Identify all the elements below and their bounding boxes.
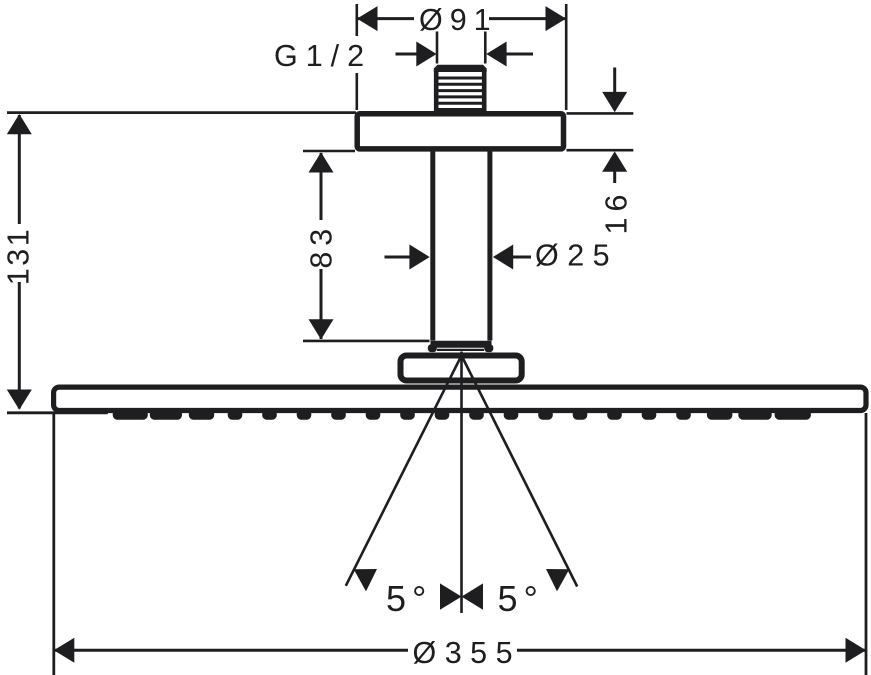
spray left line: [346, 356, 462, 586]
dim O25 left arrow: [385, 245, 430, 270]
svg-text:Ø25: Ø25: [535, 239, 618, 273]
dim G1/2 left arrow: [396, 42, 437, 67]
thread hatch lines: [437, 78, 483, 110]
dim O355 line: [54, 649, 866, 652]
dim 131 arrows: [7, 114, 32, 410]
seal gap line: [437, 349, 484, 351]
dim 16 extension lines: [567, 113, 634, 150]
svg-text:G1/2: G1/2: [274, 39, 372, 73]
ceiling flange plate: [357, 114, 563, 149]
svg-text:131: 131: [1, 227, 35, 285]
svg-text:83: 83: [305, 223, 339, 269]
label G 1/2: [271, 36, 372, 73]
svg-text:5°: 5°: [386, 578, 432, 619]
dim O355 arrows: [54, 638, 866, 663]
pipe bottom seal: [428, 341, 494, 352]
angle bowtie arrows: [440, 583, 483, 609]
lower escutcheon: [401, 356, 522, 381]
connection pipe: [433, 149, 490, 341]
dim 16 lower arrow: [602, 151, 627, 183]
spray nozzle dashes: [113, 409, 811, 419]
ceiling line: [7, 111, 356, 114]
svg-text:Ø355: Ø355: [413, 636, 522, 670]
dim G1/2 right arrow: [486, 42, 533, 67]
dim 83 text: [305, 220, 339, 269]
dim O25 right arrow: [493, 245, 531, 270]
spray left arrowhead: [354, 569, 377, 591]
dim 131 line: [18, 115, 21, 409]
dim O91 line: [357, 17, 566, 20]
shower head plate: [54, 387, 866, 410]
threaded nipple G1/2: [434, 65, 487, 112]
dim 83 extension lines: [303, 151, 430, 341]
dim 16 upper arrow: [602, 68, 627, 113]
spray right arrowhead: [546, 569, 569, 591]
spray right line: [462, 356, 578, 587]
dim O91 extension lines: [357, 4, 566, 110]
svg-text:5°: 5°: [498, 578, 544, 619]
dim 131 bottom extension: [7, 411, 108, 414]
dim 83 line: [320, 153, 323, 339]
spray center line: [460, 352, 463, 614]
dim 131 text: [1, 224, 35, 285]
dim O91 arrows: [357, 6, 566, 31]
svg-text:16: 16: [600, 189, 634, 235]
dim G1/2 extension lines: [437, 32, 485, 64]
dim 83 arrows: [309, 152, 334, 339]
dim O355 extension lines: [54, 413, 866, 675]
